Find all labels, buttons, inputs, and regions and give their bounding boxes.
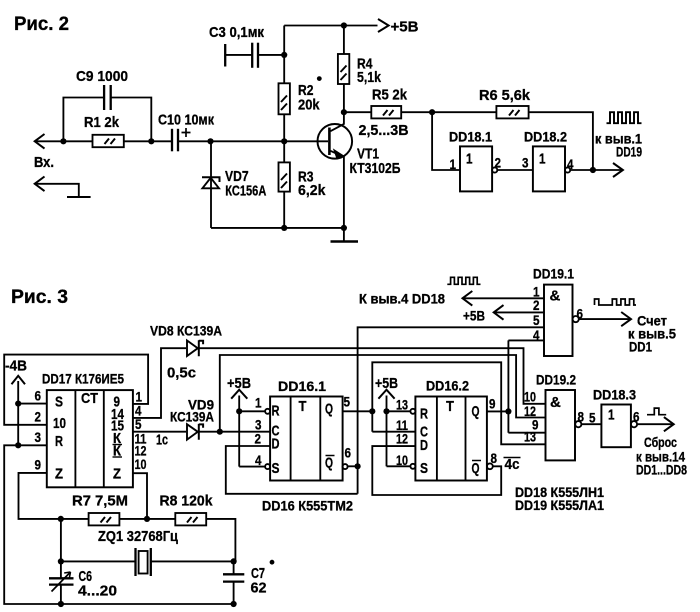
- svg-text:12: 12: [396, 431, 408, 447]
- svg-text:4...20: 4...20: [78, 583, 117, 600]
- power +5V arrow: [378, 19, 389, 32]
- wire pin3 to bottom rail: [4, 445, 233, 604]
- svg-text:Z: Z: [113, 466, 121, 483]
- svg-text:5: 5: [589, 410, 596, 426]
- svg-text:Q: Q: [325, 455, 333, 472]
- zener diode VD7: [202, 141, 220, 228]
- node C10/VD7 dot: [207, 138, 213, 144]
- capacitor C9: [63, 85, 151, 141]
- svg-text:4: 4: [533, 327, 540, 343]
- svg-text:6: 6: [345, 445, 352, 461]
- node output dot: [590, 167, 596, 173]
- wire pin2 loop to pin1: [4, 355, 148, 425]
- node C6 bottom dot: [58, 601, 64, 607]
- node R5-R6 dot: [429, 109, 435, 115]
- wire +5V rail: [284, 25, 377, 27]
- node -4V/pin3 dot: [15, 442, 21, 448]
- svg-text:10: 10: [135, 456, 147, 472]
- node +5V rail dot: [341, 22, 347, 28]
- svg-text:5: 5: [533, 312, 540, 328]
- svg-text:1: 1: [255, 395, 262, 411]
- wire input DD18.1: [432, 112, 460, 170]
- svg-text:К выв.4 DD18: К выв.4 DD18: [359, 291, 445, 307]
- wire pin5 to VD9: [133, 431, 186, 433]
- svg-text:62: 62: [251, 580, 267, 597]
- wire Q(5) DD16.1 to C DD16.2 and bus 2c: [343, 362, 546, 444]
- variable capacitor C6: [49, 519, 74, 604]
- svg-text:6: 6: [633, 409, 640, 425]
- junction dots fig2: [60, 22, 596, 231]
- node +5V/R DD16.1 dot: [236, 408, 242, 414]
- svg-text:КС156А: КС156А: [225, 183, 266, 200]
- svg-text:+5В: +5В: [391, 19, 419, 36]
- svg-text:Вх.: Вх.: [34, 154, 54, 171]
- svg-text:10: 10: [53, 415, 66, 432]
- inverter DD18.1: [460, 146, 497, 191]
- node Q9 bus dot: [505, 408, 511, 414]
- resistor R3: [279, 141, 290, 228]
- svg-text:9: 9: [489, 396, 496, 412]
- svg-text:S: S: [272, 460, 280, 477]
- gate DD19.1: [544, 285, 579, 356]
- svg-text:1: 1: [539, 151, 546, 168]
- wire common arrow with stub: [35, 177, 91, 198]
- node C3-R2 dot: [281, 52, 287, 58]
- svg-text:&: &: [550, 394, 561, 411]
- capacitor C7: [223, 561, 244, 604]
- diode VD8: [187, 340, 203, 356]
- svg-text:S: S: [55, 394, 63, 411]
- svg-text:С9 1000: С9 1000: [76, 68, 128, 85]
- svg-text:5: 5: [344, 394, 351, 410]
- svg-text:4с: 4с: [505, 456, 520, 473]
- svg-text:ZQ1 32768Гц: ZQ1 32768Гц: [98, 528, 179, 545]
- svg-text:&: &: [550, 288, 561, 305]
- wire Q bar to bus and DD19.1 pin5: [348, 327, 544, 494]
- power +5V arrow (DD16.1): [231, 390, 247, 467]
- svg-text:R5 2k: R5 2k: [372, 87, 408, 104]
- wire DD18.1 to DD18.2: [497, 169, 533, 171]
- wire R1 to C10: [124, 140, 172, 142]
- node +5V/R DD16.2 dot: [383, 408, 389, 414]
- resistor R7: [89, 513, 120, 525]
- svg-text:8: 8: [578, 409, 585, 425]
- waveform burst (Счет): [595, 299, 636, 305]
- svg-text:2: 2: [35, 409, 42, 425]
- svg-text:3: 3: [522, 155, 529, 171]
- wire pin10 to R7-R8 node: [133, 473, 147, 519]
- wire pin6 to -4V: [18, 403, 47, 405]
- svg-text:2: 2: [495, 155, 502, 171]
- node Q5 bus dot: [369, 408, 375, 414]
- wire D loop DD16.1: [226, 446, 358, 494]
- node -4V/pin6 dot: [15, 401, 21, 407]
- wire pin2 +5V arrow: [494, 305, 544, 320]
- svg-text:Q: Q: [325, 401, 333, 418]
- resistor R5: [344, 106, 432, 118]
- svg-text:4: 4: [255, 452, 262, 468]
- label К underlined: [113, 430, 123, 447]
- wire +5V to R pin DD16.1: [239, 410, 265, 412]
- wire Q bar(8) loop to D(12) DD16.2: [372, 446, 501, 495]
- svg-text:20k: 20k: [298, 97, 320, 114]
- node R1-C9 right dot: [148, 138, 154, 144]
- svg-text:+5В: +5В: [463, 308, 485, 324]
- svg-text:DD16.2: DD16.2: [426, 378, 469, 394]
- resistor R1: [93, 135, 124, 147]
- wire pin9 to R7: [19, 473, 61, 519]
- svg-text:0,5с: 0,5с: [167, 365, 196, 382]
- svg-text:КС139А: КС139А: [170, 409, 214, 425]
- svg-text:DD19 К555ЛА1: DD19 К555ЛА1: [515, 497, 604, 513]
- transistor VT1: [318, 112, 353, 228]
- svg-text:9: 9: [35, 457, 42, 473]
- wire emitter rail: [211, 227, 344, 229]
- svg-text:CT: CT: [81, 390, 98, 407]
- wire input arrow to node A: [35, 134, 64, 149]
- node emitter rail dot: [341, 225, 347, 231]
- node crystal right dot: [231, 558, 237, 564]
- resistor R2: [279, 26, 290, 142]
- svg-text:Q: Q: [472, 460, 480, 477]
- power +5V arrow (DD16.2): [378, 390, 394, 467]
- label 4c overlined: [504, 456, 521, 473]
- svg-text:D: D: [420, 437, 428, 454]
- svg-text:Q: Q: [472, 403, 480, 420]
- svg-text:VD8 КС139А: VD8 КС139А: [150, 323, 222, 339]
- inverter DD18.2: [533, 146, 570, 191]
- wire pin1 ext arrow: [463, 291, 545, 306]
- flip-flop DD16.2: [410, 397, 492, 481]
- label К underlined 2: [113, 443, 123, 460]
- svg-text:DD19.1: DD19.1: [533, 266, 574, 282]
- wire DD19.2 out to DD18.3: [581, 423, 601, 425]
- node collector dot: [341, 109, 347, 115]
- wire output DD18.3 arrow Сброс: [637, 417, 674, 431]
- svg-text:+5В: +5В: [227, 375, 251, 392]
- svg-text:С10 10мк: С10 10мк: [158, 112, 214, 129]
- svg-text:S: S: [420, 460, 428, 477]
- crystal ZQ1: [61, 548, 234, 576]
- node 1c bus dot: [217, 429, 223, 435]
- svg-text:1с: 1с: [156, 432, 168, 449]
- flip-flop DD16.1: [265, 397, 348, 481]
- wire 1c bus to DD19.2 pin12: [220, 355, 546, 432]
- svg-text:5,1k: 5,1k: [357, 69, 382, 86]
- node A dot: [60, 138, 66, 144]
- waveform meander out: [607, 112, 642, 123]
- svg-text:+5В: +5В: [375, 375, 398, 392]
- wire Q(9) net to DD19.1 pin4 and DD19.2 pin9: [487, 340, 546, 432]
- wire output to arrow: [570, 163, 623, 177]
- svg-text:Рис. 2: Рис. 2: [14, 14, 69, 35]
- svg-text:DD16 К555ТМ2: DD16 К555ТМ2: [262, 498, 353, 514]
- svg-text:2: 2: [533, 297, 540, 313]
- wire pin4 to VD8: [133, 348, 186, 418]
- wire +5V to S pin DD16.2: [387, 465, 411, 467]
- label Q bar (DD16.1): [325, 455, 335, 472]
- wire C10 to base node B: [178, 140, 328, 142]
- svg-text:Рис. 3: Рис. 3: [11, 287, 68, 308]
- svg-text:DD1...DD8: DD1...DD8: [636, 462, 687, 478]
- svg-text:DD16.1: DD16.1: [278, 378, 326, 394]
- node crystal left dot: [58, 558, 64, 564]
- svg-text:R1 2k: R1 2k: [84, 114, 120, 131]
- counter DD17: [47, 390, 133, 487]
- wire VD8 to DD19.2 pin10: [200, 348, 546, 404]
- svg-text:2,5...3В: 2,5...3В: [359, 122, 409, 139]
- svg-text:6: 6: [35, 388, 42, 404]
- svg-text:8: 8: [491, 450, 498, 466]
- svg-text:6,2k: 6,2k: [298, 182, 326, 199]
- svg-text:КТ3102Б: КТ3102Б: [350, 160, 401, 177]
- svg-text:DD17 К176ИЕ5: DD17 К176ИЕ5: [42, 371, 124, 387]
- wire +5V to S pin DD16.1: [239, 466, 265, 468]
- svg-text:1: 1: [466, 151, 473, 168]
- svg-text:DD1: DD1: [629, 339, 652, 355]
- resistor R4: [338, 26, 349, 113]
- diode VD9: [187, 424, 203, 440]
- svg-text:DD19.2: DD19.2: [536, 372, 576, 388]
- node R3 bottom dot: [281, 225, 287, 231]
- wire +5V to R pin DD16.2: [387, 410, 411, 412]
- svg-text:3: 3: [35, 429, 42, 445]
- svg-text:13: 13: [524, 429, 536, 445]
- waveform pulse (Сброс): [647, 408, 666, 415]
- svg-text:R: R: [272, 403, 280, 420]
- svg-text:R8 120k: R8 120k: [160, 493, 214, 510]
- svg-text:T: T: [446, 398, 454, 415]
- svg-text:Z: Z: [55, 466, 63, 483]
- svg-text:2: 2: [255, 431, 262, 447]
- svg-text:13: 13: [396, 397, 408, 413]
- node C7 bottom dot: [231, 601, 237, 607]
- ground: [331, 228, 359, 242]
- label Q bar (DD16.2): [472, 460, 482, 477]
- gate DD19.2: [546, 390, 582, 460]
- node R7 left dot: [58, 516, 64, 522]
- wire R8 right down to crystal node: [206, 519, 235, 562]
- wire node A to R1: [63, 140, 92, 142]
- svg-text:D: D: [272, 436, 280, 453]
- svg-text:С3 0,1мк: С3 0,1мк: [209, 24, 264, 41]
- capacitor C3: [225, 43, 284, 68]
- inverter DD18.3: [601, 405, 637, 448]
- junction dots fig3: [15, 401, 511, 608]
- svg-text:-4В: -4В: [5, 358, 27, 375]
- node Qbar6 bus dot: [355, 463, 361, 469]
- resistor R8: [175, 513, 206, 525]
- svg-text:R: R: [55, 433, 63, 450]
- wire VD9 to DD16.1 C: [200, 431, 271, 433]
- power -4В arrow: [12, 376, 26, 446]
- node R7-R8 dot: [144, 516, 150, 522]
- svg-text:R6 5,6k: R6 5,6k: [479, 87, 531, 104]
- waveform meander (pin1): [447, 277, 480, 284]
- svg-text:1: 1: [608, 407, 615, 424]
- svg-text:DD18.1: DD18.1: [449, 129, 492, 145]
- wire R7 to R8: [119, 518, 175, 520]
- svg-text:R7 7,5М: R7 7,5М: [72, 493, 128, 510]
- resistor R6: [432, 106, 593, 170]
- svg-text:10: 10: [396, 452, 408, 468]
- wire R7 left: [61, 518, 89, 520]
- svg-text:DD18.2: DD18.2: [524, 129, 567, 145]
- svg-text:T: T: [299, 398, 307, 415]
- svg-text:DD19: DD19: [616, 144, 642, 160]
- svg-text:DD18.3: DD18.3: [593, 387, 636, 403]
- svg-text:R: R: [420, 406, 428, 423]
- node R2-R3 dot: [281, 138, 287, 144]
- wire output DD19.1 arrow Счет: [579, 312, 631, 326]
- capacitor C10: [172, 128, 191, 151]
